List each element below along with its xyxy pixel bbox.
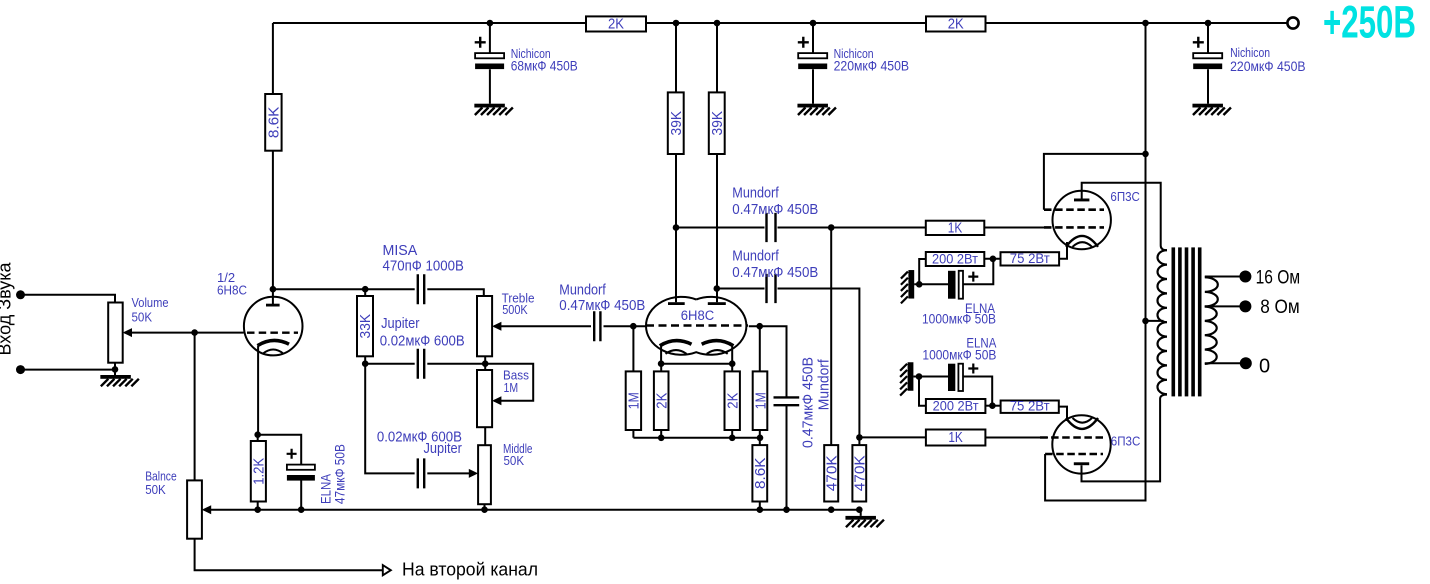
svg-text:+250В: +250В bbox=[1323, 0, 1416, 48]
svg-text:0.47мкФ 450В: 0.47мкФ 450В bbox=[732, 202, 818, 218]
svg-text:1.2K: 1.2K bbox=[252, 458, 268, 485]
svg-text:470пФ 1000В: 470пФ 1000В bbox=[383, 259, 464, 275]
svg-text:8.6K: 8.6K bbox=[753, 457, 769, 489]
svg-text:Mundorf: Mundorf bbox=[732, 185, 779, 201]
svg-text:6Н8С: 6Н8С bbox=[681, 308, 715, 323]
svg-text:8.6K: 8.6K bbox=[267, 106, 283, 138]
svg-text:50K: 50K bbox=[145, 482, 166, 497]
svg-text:16 Ом: 16 Ом bbox=[1256, 267, 1301, 289]
svg-text:Jupiter: Jupiter bbox=[381, 316, 420, 332]
svg-text:1K: 1K bbox=[948, 220, 963, 236]
svg-text:6П3С: 6П3С bbox=[1110, 189, 1140, 204]
svg-text:2K: 2K bbox=[608, 17, 624, 33]
svg-text:MISA: MISA bbox=[383, 243, 418, 259]
svg-text:39K: 39K bbox=[710, 111, 726, 136]
svg-text:39K: 39K bbox=[669, 111, 685, 136]
svg-text:1K: 1K bbox=[948, 430, 963, 446]
svg-text:Jupiter: Jupiter bbox=[424, 441, 463, 457]
svg-text:Volume: Volume bbox=[132, 295, 169, 310]
svg-text:500K: 500K bbox=[502, 302, 528, 317]
svg-text:Mundorf: Mundorf bbox=[559, 283, 606, 299]
svg-text:0.47мкФ 450В: 0.47мкФ 450В bbox=[559, 298, 645, 314]
svg-text:200 2Вт: 200 2Вт bbox=[932, 251, 978, 266]
svg-text:1000мкФ 50В: 1000мкФ 50В bbox=[922, 347, 996, 362]
svg-text:470K: 470K bbox=[825, 455, 841, 491]
svg-text:200 2Вт: 200 2Вт bbox=[933, 398, 979, 413]
svg-text:470K: 470K bbox=[853, 455, 869, 491]
svg-text:1000мкФ 50В: 1000мкФ 50В bbox=[922, 311, 996, 326]
svg-text:Mundorf: Mundorf bbox=[732, 248, 779, 264]
svg-text:50K: 50K bbox=[504, 453, 525, 468]
svg-text:75 2Вт: 75 2Вт bbox=[1010, 251, 1050, 266]
svg-text:2K: 2K bbox=[948, 17, 964, 33]
svg-text:ELNA: ELNA bbox=[319, 474, 334, 504]
svg-text:0.47мкФ 450В: 0.47мкФ 450В bbox=[801, 357, 817, 448]
svg-text:1M: 1M bbox=[504, 380, 519, 395]
svg-text:На второй канал: На второй канал bbox=[402, 560, 538, 580]
svg-text:220мкФ 450В: 220мкФ 450В bbox=[1230, 59, 1306, 74]
svg-text:2K: 2K bbox=[726, 392, 742, 408]
svg-text:33K: 33K bbox=[358, 314, 374, 339]
svg-text:Вход Звука: Вход Звука bbox=[0, 261, 15, 355]
svg-text:68мкФ 450В: 68мкФ 450В bbox=[511, 58, 578, 73]
svg-text:50K: 50K bbox=[132, 310, 153, 325]
svg-text:1M: 1M bbox=[627, 392, 643, 409]
svg-text:220мкФ 450В: 220мкФ 450В bbox=[834, 58, 910, 73]
svg-text:0: 0 bbox=[1259, 356, 1270, 378]
svg-text:2K: 2K bbox=[655, 392, 671, 408]
svg-text:6П3С: 6П3С bbox=[1111, 433, 1141, 448]
svg-text:75 2Вт: 75 2Вт bbox=[1010, 399, 1050, 414]
svg-text:47мкФ 50В: 47мкФ 50В bbox=[332, 444, 347, 504]
svg-text:6Н8С: 6Н8С bbox=[217, 282, 247, 297]
svg-text:0.47мкФ 450В: 0.47мкФ 450В bbox=[732, 265, 818, 281]
svg-text:1M: 1M bbox=[753, 392, 769, 409]
svg-text:0.02мкФ 600В: 0.02мкФ 600В bbox=[380, 333, 465, 349]
svg-text:8 Ом: 8 Ом bbox=[1260, 296, 1300, 318]
